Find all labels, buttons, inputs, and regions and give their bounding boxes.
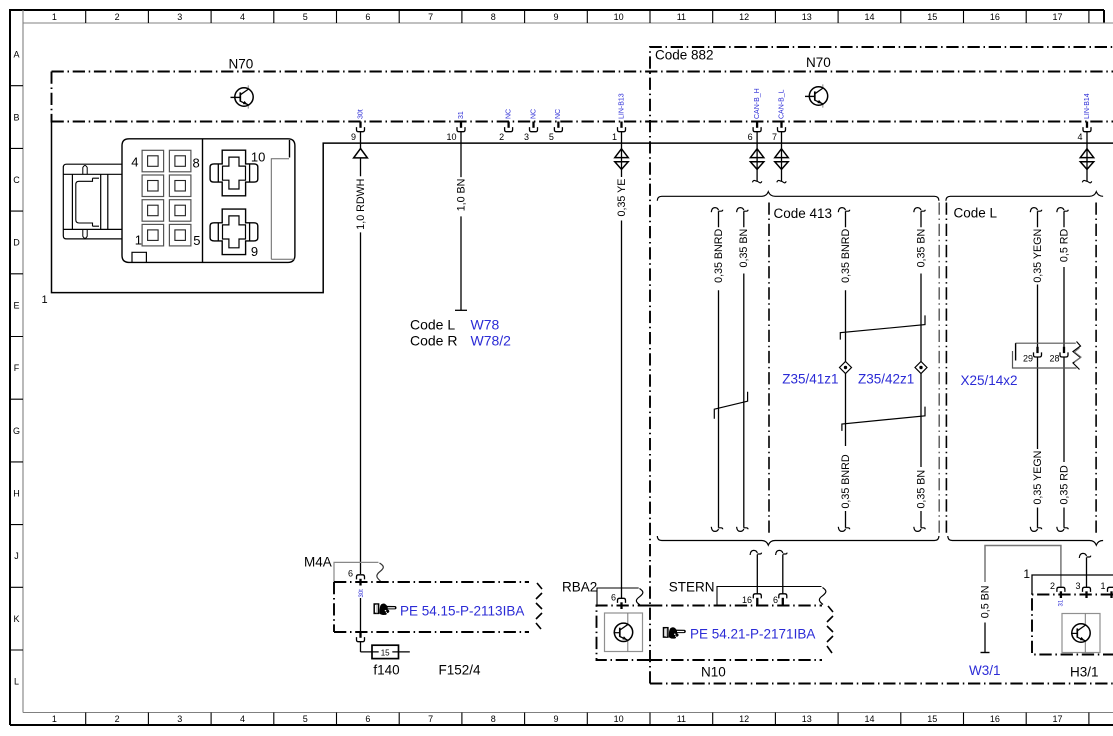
svg-text:10: 10 <box>446 132 456 142</box>
bidirectional diamond symbol pin 4 <box>1080 149 1093 158</box>
svg-text:17: 17 <box>1052 12 1062 22</box>
CodeL wire 0,5 RD / 0,35 RD <box>1063 211 1065 347</box>
svg-text:H: H <box>13 488 20 498</box>
STERN pin 16 <box>742 594 761 605</box>
svg-text:Code L: Code L <box>410 316 455 332</box>
X25 torn right edge zigzag <box>1073 342 1081 370</box>
wire end hook top CodeL YEGN <box>1030 208 1037 213</box>
grey wire from H3/1 pin 2 to ground branch <box>985 546 1061 588</box>
BN wire end tick <box>455 309 467 311</box>
twist crossover symbol bay 1 <box>714 392 747 419</box>
svg-text:5: 5 <box>549 132 554 142</box>
wire end hook top Code413 BN <box>914 208 921 213</box>
wire end hook bottom bay1 BNRD <box>711 527 718 532</box>
svg-text:9: 9 <box>553 12 558 22</box>
svg-text:0,35 BN: 0,35 BN <box>915 470 927 509</box>
svg-text:C: C <box>13 175 20 185</box>
svg-text:RBA2: RBA2 <box>562 580 597 595</box>
fuse holder M4A box fragment <box>334 562 379 582</box>
wire break squiggle pin 6 <box>752 180 761 182</box>
X25 pin 28 <box>1049 347 1068 364</box>
svg-text:14: 14 <box>864 12 874 22</box>
svg-text:7: 7 <box>772 132 777 142</box>
svg-text:9: 9 <box>351 132 356 142</box>
overbrace left bundle <box>657 192 939 201</box>
connector housing outline <box>122 139 295 263</box>
svg-text:1,0 RDWH: 1,0 RDWH <box>355 179 367 230</box>
PE box 1 torn right edge <box>536 583 542 629</box>
twisted-pair wire 0,35 BNRD (bay 1) <box>718 211 720 528</box>
ruler column numbers 1-17 top <box>52 12 1063 22</box>
H3/1 pin 1 (cut) <box>1100 581 1113 598</box>
wire into STERN pin 6 <box>782 555 784 594</box>
RBA2 transistor in square <box>605 613 643 652</box>
connector section divider <box>202 139 204 263</box>
wire end hook bottom bay1 BN <box>737 527 744 532</box>
bidirectional diamond symbol on YE wire <box>615 149 628 158</box>
pin 1 of N70 (LIN-B13) <box>612 93 626 142</box>
wire end hook top Code413 BNRD <box>838 208 845 213</box>
wire end hook bottom CodeL YEGN <box>1030 527 1037 532</box>
svg-text:1: 1 <box>1023 567 1030 581</box>
svg-text:10: 10 <box>614 714 624 724</box>
svg-text:7: 7 <box>428 714 433 724</box>
fuse f140 (15 A) <box>379 647 393 656</box>
svg-text:29: 29 <box>1023 354 1033 364</box>
svg-text:17: 17 <box>1052 714 1062 724</box>
svg-text:4: 4 <box>1077 132 1082 142</box>
connector latch bottom tab <box>83 229 87 238</box>
svg-text:0,35 YEGN: 0,35 YEGN <box>1032 229 1044 283</box>
Code413 wire 0,35 BN <box>920 211 922 528</box>
svg-text:Code 413: Code 413 <box>774 206 833 221</box>
svg-text:f140: f140 <box>373 663 399 678</box>
Code413 lower crossover <box>842 407 925 431</box>
svg-text:8: 8 <box>491 714 496 724</box>
wire end hook above H3/1 pin 3 <box>1079 553 1086 558</box>
svg-text:15: 15 <box>927 12 937 22</box>
dash-dot divider right of first twisted-pair bay <box>768 203 770 535</box>
svg-text:Code L: Code L <box>954 206 998 221</box>
svg-text:0,35 YEGN: 0,35 YEGN <box>1032 451 1044 505</box>
svg-text:A: A <box>13 50 19 60</box>
svg-text:6: 6 <box>748 132 753 142</box>
svg-text:9: 9 <box>251 244 258 259</box>
H3/1 transistor in square <box>1062 614 1100 653</box>
svg-text:0,35 BN: 0,35 BN <box>738 229 750 268</box>
connector latch top tab <box>83 166 87 175</box>
svg-text:4: 4 <box>131 155 138 170</box>
svg-text:NC: NC <box>555 109 562 119</box>
PE box 1 exit pin <box>357 632 365 642</box>
N70 box bottom dash-dot edge / pin rail <box>52 121 1113 123</box>
Code413 upper crossover <box>840 315 925 339</box>
connector key notch bottom-left <box>132 252 146 262</box>
control unit N70 box (dash-dot top edge, shared across page) <box>52 71 1113 73</box>
svg-text:2: 2 <box>499 132 504 142</box>
svg-text:3: 3 <box>1075 581 1080 591</box>
svg-text:4: 4 <box>240 714 245 724</box>
svg-text:F: F <box>14 363 20 373</box>
svg-text:0,35 BNRD: 0,35 BNRD <box>840 454 852 508</box>
RBA2 dash-dot box <box>597 606 651 661</box>
svg-text:1: 1 <box>1100 581 1105 591</box>
pin 9 of N70 (30t) <box>351 109 365 142</box>
connector cross cavity 9 <box>210 209 258 255</box>
svg-text:CAN-B_H: CAN-B_H <box>754 88 761 119</box>
svg-text:CAN-B_L: CAN-B_L <box>778 89 785 119</box>
connector pin cavity squares 1-8 <box>142 150 191 246</box>
connector cross cavity 10 <box>210 150 258 196</box>
svg-text:K: K <box>13 614 19 624</box>
wire 1,0 BN from N70 pin 10 <box>460 132 462 311</box>
svg-text:W78/2: W78/2 <box>471 332 512 348</box>
dash-dot right edge of Code 413 bay <box>938 203 940 537</box>
svg-text:0,35 RD: 0,35 RD <box>1058 465 1070 504</box>
H3/1 pin 2 <box>1050 581 1065 598</box>
pin 7 of N70 (CAN-B_L) <box>772 89 786 142</box>
svg-text:G: G <box>13 426 20 436</box>
svg-text:0,35 BNRD: 0,35 BNRD <box>713 229 725 283</box>
svg-text:31: 31 <box>458 111 465 119</box>
svg-text:W3/1: W3/1 <box>969 663 1001 678</box>
svg-text:6: 6 <box>365 12 370 22</box>
svg-text:N70: N70 <box>229 57 254 72</box>
svg-text:PE 54.15-P-2113IBA: PE 54.15-P-2113IBA <box>400 604 524 619</box>
wire: component-1 region outline and horizontal bus <box>52 123 1113 293</box>
svg-text:PE 54.21-P-2171IBA: PE 54.21-P-2171IBA <box>690 627 815 642</box>
svg-text:Code R: Code R <box>410 332 457 348</box>
bidirectional diamond symbol pin 7 <box>775 149 788 158</box>
svg-text:H3/1: H3/1 <box>1070 665 1099 680</box>
W3/1 terminal tick <box>981 652 990 654</box>
svg-text:10: 10 <box>614 12 624 22</box>
wire 0,35 YE from N70 pin 1 to RBA2 <box>621 132 623 599</box>
svg-text:12: 12 <box>739 12 749 22</box>
wire end hook top bay1 BNRD <box>711 208 718 213</box>
Code413 wire 0,35 BNRD <box>845 211 847 528</box>
N70 box left dash-dot edge <box>51 72 53 123</box>
RBA2 box fragment <box>597 588 639 606</box>
svg-text:3: 3 <box>177 714 182 724</box>
pointing hand icon 1 <box>374 603 396 614</box>
wire elbow to fuse f140 <box>361 651 410 653</box>
wire from M4A through PE box to fuse <box>360 598 362 632</box>
svg-text:15: 15 <box>381 648 390 657</box>
pin 2 of N70 (NC) <box>499 109 513 142</box>
dash-dot right edge of Code L bay <box>1095 203 1097 534</box>
svg-text:STERN: STERN <box>669 580 715 595</box>
svg-text:L: L <box>14 677 19 687</box>
svg-text:8: 8 <box>491 12 496 22</box>
svg-text:11: 11 <box>677 714 686 724</box>
svg-text:1,0 BN: 1,0 BN <box>455 179 467 212</box>
wire end hook top CodeL RD <box>1057 208 1064 213</box>
svg-text:2: 2 <box>1050 581 1055 591</box>
svg-text:D: D <box>13 238 20 248</box>
svg-text:6: 6 <box>348 569 353 579</box>
svg-text:2: 2 <box>115 714 120 724</box>
svg-text:Z35/41z1: Z35/41z1 <box>782 372 838 387</box>
dash-dot left edge of Code L bay <box>945 203 947 537</box>
svg-text:1: 1 <box>612 132 617 142</box>
wire end hook bottom CodeL RD <box>1057 527 1064 532</box>
svg-text:5: 5 <box>303 12 308 22</box>
pin 10 of N70 (31) <box>446 111 465 142</box>
svg-text:15: 15 <box>927 714 937 724</box>
svg-text:NC: NC <box>505 109 512 119</box>
underbrace left bundle <box>657 536 939 545</box>
CodeL wire 0,35 YEGN <box>1037 211 1039 347</box>
connector latch C-bracket <box>76 178 99 226</box>
svg-text:LIN-B14: LIN-B14 <box>1084 93 1091 119</box>
svg-text:31: 31 <box>1058 599 1064 606</box>
svg-text:X25/14x2: X25/14x2 <box>961 373 1018 388</box>
svg-text:Code 882: Code 882 <box>655 48 714 63</box>
svg-text:N10: N10 <box>701 665 726 680</box>
svg-text:14: 14 <box>864 714 874 724</box>
ruler row dividers left strip <box>10 86 23 650</box>
pin 4 of N70 (LIN-B14) <box>1077 93 1091 142</box>
svg-text:16: 16 <box>742 595 752 605</box>
svg-text:5: 5 <box>193 233 200 248</box>
pointing hand icon 2 <box>664 627 686 638</box>
svg-text:NC: NC <box>530 109 537 119</box>
svg-text:2: 2 <box>115 12 120 22</box>
H3/1 dash-dot box <box>1032 595 1113 655</box>
svg-text:3: 3 <box>177 12 182 22</box>
svg-text:3: 3 <box>524 132 529 142</box>
svg-text:1: 1 <box>52 12 57 22</box>
dash-dot reference box PE 54.15 <box>334 582 529 632</box>
H3/1 connector top edge <box>1032 575 1113 595</box>
underbrace Code L bundle <box>948 536 1103 545</box>
wire break squiggle pin 4 <box>1082 180 1091 182</box>
svg-text:4: 4 <box>240 12 245 22</box>
svg-text:11: 11 <box>677 12 686 22</box>
svg-text:J: J <box>14 551 19 561</box>
svg-text:N70: N70 <box>806 55 831 70</box>
RBA2 pin 6 <box>611 593 626 610</box>
svg-text:0,5 RD: 0,5 RD <box>1058 229 1070 263</box>
wire into H3/1 pin 3 <box>1086 558 1088 588</box>
svg-text:16: 16 <box>990 12 1000 22</box>
RBA2 torn edge squiggle <box>636 589 643 606</box>
svg-text:1: 1 <box>52 714 57 724</box>
ruler column dividers top strip <box>86 10 1089 23</box>
M4A torn edge squiggle <box>377 563 383 581</box>
svg-text:E: E <box>13 300 19 310</box>
wire end hook bottom Code413 BN <box>914 527 921 532</box>
svg-text:F152/4: F152/4 <box>439 663 482 678</box>
svg-text:8: 8 <box>193 156 200 171</box>
svg-text:12: 12 <box>739 714 749 724</box>
H3/1 pin 3 <box>1075 581 1090 598</box>
STERN torn edge squiggle <box>819 588 826 605</box>
svg-text:0,5 BN: 0,5 BN <box>979 586 991 619</box>
svg-text:13: 13 <box>802 714 812 724</box>
svg-text:9: 9 <box>553 714 558 724</box>
splice Z35/42z1 diamond <box>915 362 927 374</box>
svg-text:0,35 BNRD: 0,35 BNRD <box>840 229 852 283</box>
svg-text:1: 1 <box>42 294 48 306</box>
svg-text:B: B <box>13 112 19 122</box>
ruler row letters A-L <box>13 50 20 687</box>
M4A pin 6 <box>348 569 365 586</box>
connector X25/14x2 box <box>1016 342 1076 344</box>
Code L / W78 reference block <box>410 316 511 348</box>
svg-text:M4A: M4A <box>304 555 332 570</box>
overbrace Code L bundle <box>946 192 1103 201</box>
svg-text:0,35 BN: 0,35 BN <box>915 229 927 268</box>
wire LIN-B14 stub from pin 4 <box>1086 132 1088 182</box>
svg-text:Z35/42z1: Z35/42z1 <box>858 372 914 387</box>
wire CAN-B_L stub from pin 7 <box>781 132 783 182</box>
svg-text:W78: W78 <box>471 316 500 332</box>
connector latch inner ribs <box>72 174 107 229</box>
svg-text:5: 5 <box>303 714 308 724</box>
svg-text:1: 1 <box>135 233 142 248</box>
bidirectional diamond symbol pin 6 <box>750 149 763 158</box>
arrow symbol on RDWH wire <box>354 149 368 158</box>
wire into STERN pin 16 <box>756 555 758 594</box>
wire CAN-B_H stub from pin 6 <box>756 132 758 182</box>
svg-text:13: 13 <box>802 12 812 22</box>
X25 pin 29 <box>1023 347 1042 364</box>
wire 1,0 RDWH from N70 pin 9 to M4A <box>360 132 362 575</box>
connector latch housing <box>63 164 122 239</box>
wire end hook above STERN pin 16 <box>750 550 757 555</box>
wire end hook above STERN pin 6 <box>776 550 783 555</box>
dash-dot reference box PE 54.21 (N10) <box>650 606 822 661</box>
svg-text:6: 6 <box>365 714 370 724</box>
svg-text:30t: 30t <box>359 589 365 598</box>
wire end hook top bay1 BN <box>737 208 744 213</box>
wire break squiggle pin 7 <box>777 180 786 182</box>
transistor symbol inside right N70 <box>805 84 828 107</box>
svg-text:LIN-B13: LIN-B13 <box>618 93 625 119</box>
STERN box fragment <box>717 587 822 606</box>
ruler column numbers 1-17 bottom <box>52 714 1063 724</box>
svg-text:28: 28 <box>1049 354 1059 364</box>
control unit box Code 882 (dash-dot) <box>650 47 1113 684</box>
splice Z35/41z1 diamond <box>840 362 852 374</box>
svg-text:0,35 YE: 0,35 YE <box>616 179 628 217</box>
STERN pin 6 <box>773 594 787 605</box>
pin 3 of N70 (NC) <box>524 109 538 142</box>
twisted-pair wire 0,35 BN (bay 1) <box>743 211 745 528</box>
svg-text:16: 16 <box>990 714 1000 724</box>
svg-text:6: 6 <box>611 593 616 603</box>
connector housing inner step walls <box>289 140 291 158</box>
transistor symbol inside left N70 <box>231 85 254 108</box>
svg-text:6: 6 <box>773 595 778 605</box>
svg-text:30t: 30t <box>357 109 364 119</box>
svg-text:10: 10 <box>251 150 265 165</box>
ruler column dividers bottom strip <box>86 713 1089 726</box>
wire end hook bottom Code413 BNRD <box>838 527 845 532</box>
pin 5 of N70 (NC) <box>549 109 563 142</box>
pin 6 of N70 (CAN-B_H) <box>748 88 762 142</box>
svg-text:7: 7 <box>428 12 433 22</box>
PE box 2 torn right edge <box>827 606 833 653</box>
